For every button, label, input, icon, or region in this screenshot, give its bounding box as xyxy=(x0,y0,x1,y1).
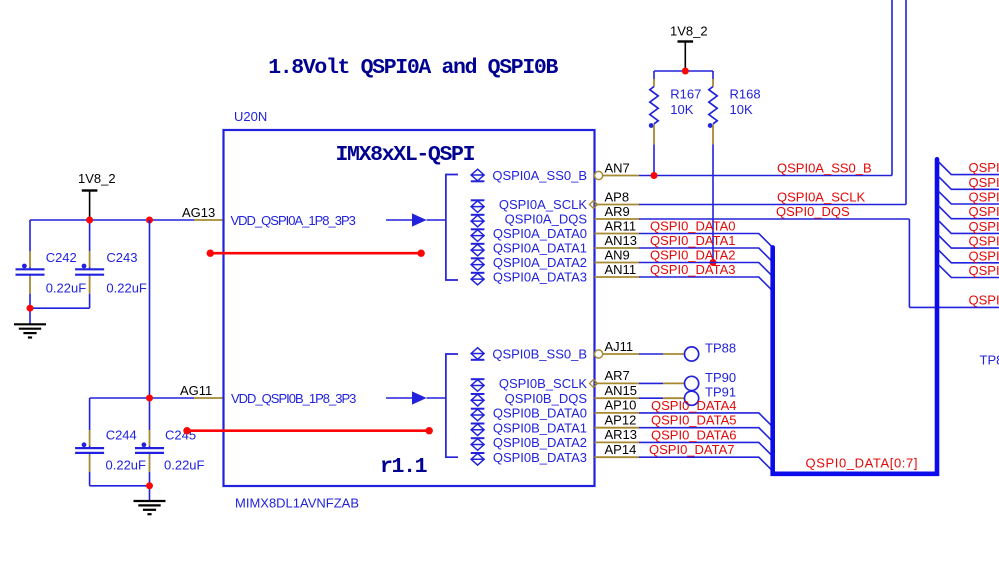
svg-text:QSPI0A_DATA2: QSPI0A_DATA2 xyxy=(493,255,587,270)
wire QSPI0A_SS0_B net xyxy=(639,0,892,176)
svg-text:QSPI0_DATA6: QSPI0_DATA6 xyxy=(651,427,737,442)
wire bus branch QSPI0_DATA0 xyxy=(938,162,999,175)
wire bus branch QSPI0_DATA1 xyxy=(938,176,999,189)
svg-text:QSPI0_DATA4: QSPI0_DATA4 xyxy=(651,398,737,413)
wire bus branch QSPI0_DATA3 xyxy=(938,206,999,219)
pin group bracket A xyxy=(446,175,458,281)
svg-text:QSPI0A_SS0_B: QSPI0A_SS0_B xyxy=(492,168,587,183)
svg-text:QSPI0_DATA1: QSPI0_DATA1 xyxy=(969,175,999,190)
testpoint TP91 xyxy=(639,397,663,399)
wire QSPI0_DATA1 net xyxy=(639,248,773,262)
pin symbol QSPI0B_SCLK xyxy=(471,380,484,392)
node junction ground 2 xyxy=(146,482,153,489)
svg-text:QSPI0B_DATA3: QSPI0B_DATA3 xyxy=(493,450,587,465)
svg-text:VDD_QSPI0B_1P8_3P3: VDD_QSPI0B_1P8_3P3 xyxy=(231,391,356,406)
svg-text:IMX8xXL-QSPI: IMX8xXL-QSPI xyxy=(336,143,475,167)
node junction ground 1 xyxy=(27,305,34,312)
svg-text:C243: C243 xyxy=(106,250,137,265)
resistor R168 xyxy=(712,71,714,79)
svg-text:QSPI0_DATA3: QSPI0_DATA3 xyxy=(969,204,999,219)
ground (left lower) xyxy=(149,486,151,501)
svg-text:1.8Volt QSPI0A and QSPI0B: 1.8Volt QSPI0A and QSPI0B xyxy=(268,56,558,80)
wire QSPI0_DATA3 net xyxy=(639,277,773,291)
pin stub AG13 xyxy=(194,219,224,221)
svg-text:TP89: TP89 xyxy=(980,353,999,368)
svg-text:C242: C242 xyxy=(46,250,77,265)
node junction R167/SS0_B xyxy=(651,172,658,179)
svg-text:AP14: AP14 xyxy=(605,442,637,457)
svg-text:QSPI0B_DATA0: QSPI0B_DATA0 xyxy=(493,406,587,421)
wire QSPI0A_SCLK net xyxy=(639,0,906,205)
node junction R168/DATA2 xyxy=(710,259,717,266)
svg-text:C244: C244 xyxy=(106,428,137,443)
pin symbol QSPI0A_DATA3 xyxy=(471,273,484,285)
svg-text:QSPI0B_SS0_B: QSPI0B_SS0_B xyxy=(492,347,587,362)
wire vertical rail to AG11 xyxy=(149,220,151,398)
svg-text:QSPI0A_DATA1: QSPI0A_DATA1 xyxy=(493,241,587,256)
pin symbol QSPI0A_DATA0 xyxy=(471,230,484,242)
svg-text:AR13: AR13 xyxy=(605,427,638,442)
wire probe line A xyxy=(210,252,421,255)
svg-text:QSPI0A_SS0_B: QSPI0A_SS0_B xyxy=(777,161,872,176)
svg-text:QSPI0_DATA0: QSPI0_DATA0 xyxy=(969,160,999,175)
wire AG11 rail xyxy=(90,397,194,399)
ground (left upper) xyxy=(29,308,31,324)
pin AP12 stub xyxy=(595,427,640,429)
wire bus branch QSPI0_DATA4 xyxy=(938,220,999,233)
svg-text:QSPI0_DATA[0:7]: QSPI0_DATA[0:7] xyxy=(806,456,919,471)
svg-text:AN9: AN9 xyxy=(605,247,630,262)
svg-text:QSPI0_DATA4: QSPI0_DATA4 xyxy=(969,219,999,234)
svg-text:0.22uF: 0.22uF xyxy=(164,457,205,472)
capacitor C245 xyxy=(149,398,151,430)
wire cap bottom rail 2 xyxy=(90,485,150,487)
svg-text:QSPI0_DATA5: QSPI0_DATA5 xyxy=(969,234,999,249)
pin symbol QSPI0B_DATA0 xyxy=(471,409,484,421)
svg-text:MIMX8DL1AVNFZAB: MIMX8DL1AVNFZAB xyxy=(235,496,359,511)
svg-text:QSPI0A_SCLK: QSPI0A_SCLK xyxy=(777,190,865,205)
pin AR7 stub xyxy=(595,382,640,384)
svg-text:10K: 10K xyxy=(730,102,753,117)
svg-text:AG11: AG11 xyxy=(180,383,212,398)
svg-text:QSPI0_DATA7: QSPI0_DATA7 xyxy=(969,263,999,278)
pin AN13 stub xyxy=(595,247,640,249)
op IC U20N body xyxy=(224,130,595,486)
pin AN9 stub xyxy=(595,262,640,264)
svg-text:AN13: AN13 xyxy=(605,233,638,248)
pin symbol QSPI0B_DATA2 xyxy=(471,439,484,451)
svg-text:QSPI0_DQS: QSPI0_DQS xyxy=(969,293,999,308)
svg-text:QSPI0_DATA7: QSPI0_DATA7 xyxy=(649,442,735,457)
svg-text:QSPI0_DATA1: QSPI0_DATA1 xyxy=(650,233,736,248)
pin AJ11 stub xyxy=(595,350,603,358)
capacitor C243 xyxy=(89,220,91,251)
svg-text:AN7: AN7 xyxy=(605,160,630,175)
svg-text:QSPI0_DATA3: QSPI0_DATA3 xyxy=(650,262,736,277)
svg-text:AP12: AP12 xyxy=(605,413,637,428)
svg-text:U20N: U20N xyxy=(234,109,267,124)
node junction pullup rail xyxy=(682,68,689,75)
wire top rail AG13 xyxy=(30,219,194,221)
svg-text:QSPI0_DATA5: QSPI0_DATA5 xyxy=(651,413,737,428)
svg-text:QSPI0_DATA6: QSPI0_DATA6 xyxy=(969,248,999,263)
pin stub AG11 xyxy=(194,397,224,399)
svg-text:1V8_2: 1V8_2 xyxy=(78,171,116,186)
svg-text:QSPI0B_DQS: QSPI0B_DQS xyxy=(505,391,588,406)
svg-text:0.22uF: 0.22uF xyxy=(106,457,147,472)
svg-text:QSPI0B_DATA2: QSPI0B_DATA2 xyxy=(493,435,587,450)
wire pullup rail xyxy=(654,70,713,72)
node junction AG11 xyxy=(146,395,153,402)
svg-text:1V8_2: 1V8_2 xyxy=(670,24,708,39)
wire bus branch QSPI0_DATA5 xyxy=(938,235,999,248)
svg-text:VDD_QSPI0A_1P8_3P3: VDD_QSPI0A_1P8_3P3 xyxy=(231,213,356,228)
pin AR13 stub xyxy=(595,441,640,443)
svg-text:r1.1: r1.1 xyxy=(380,455,427,479)
wire probe line B xyxy=(187,429,429,432)
wire bus branch QSPI0_DATA6 xyxy=(938,250,999,263)
wire QSPI0_DATA0 net xyxy=(639,234,773,248)
svg-text:0.22uF: 0.22uF xyxy=(46,280,87,295)
svg-text:TP90: TP90 xyxy=(705,370,736,385)
pin symbol QSPI0A_SCLK xyxy=(471,201,484,213)
pin AP14 stub xyxy=(595,456,640,458)
svg-text:AR9: AR9 xyxy=(605,204,630,219)
svg-text:QSPI0_DATA0: QSPI0_DATA0 xyxy=(650,219,736,234)
svg-text:AR7: AR7 xyxy=(605,368,630,383)
pin symbol QSPI0B_SS0_B xyxy=(471,348,484,360)
capacitor C244 xyxy=(89,398,91,430)
testpoint TP88 xyxy=(639,353,663,355)
svg-text:QSPI0B_DATA1: QSPI0B_DATA1 xyxy=(493,420,587,435)
wire cap bottom rail 1 xyxy=(30,307,90,309)
pin AN11 stub xyxy=(595,276,640,278)
svg-text:0.22uF: 0.22uF xyxy=(106,280,147,295)
svg-text:R167: R167 xyxy=(670,87,701,102)
wire QSPI0_DATA6 net xyxy=(639,442,773,456)
pin symbol QSPI0A_SS0_B xyxy=(471,169,484,181)
testpoint TP90 xyxy=(639,382,663,384)
svg-text:QSPI0_DATA2: QSPI0_DATA2 xyxy=(650,248,736,263)
svg-text:AN11: AN11 xyxy=(605,262,637,277)
pin symbol QSPI0B_DATA3 xyxy=(471,454,484,466)
svg-text:AN15: AN15 xyxy=(605,383,638,398)
svg-text:QSPI0A_DATA0: QSPI0A_DATA0 xyxy=(493,226,587,241)
wire QSPI0_DQS net xyxy=(639,219,999,307)
pin symbol QSPI0B_DQS xyxy=(471,395,484,407)
svg-text:QSPI0A_DATA3: QSPI0A_DATA3 xyxy=(493,270,587,285)
resistor R167 xyxy=(653,71,655,79)
svg-text:AP10: AP10 xyxy=(605,398,637,413)
svg-text:QSPI0_DATA2: QSPI0_DATA2 xyxy=(969,190,999,205)
wire QSPI0_DATA2 net xyxy=(639,263,773,277)
svg-text:AJ11: AJ11 xyxy=(605,339,634,354)
svg-text:AG13: AG13 xyxy=(182,205,215,220)
wire bus branch QSPI0_DATA7 xyxy=(938,264,999,277)
pin symbol QSPI0A_DQS xyxy=(471,215,484,227)
bus QSPI0_DATA[0:7] xyxy=(773,159,937,474)
pin AR11 stub xyxy=(595,233,640,235)
svg-text:AP8: AP8 xyxy=(605,189,630,204)
pin group bracket B xyxy=(446,354,458,457)
pin AP10 stub xyxy=(595,412,640,414)
wire QSPI0_DATA4 net xyxy=(639,413,773,427)
svg-text:R168: R168 xyxy=(730,87,761,102)
pin symbol QSPI0A_DATA2 xyxy=(471,259,484,271)
pin symbol QSPI0B_DATA1 xyxy=(471,424,484,436)
svg-text:AR11: AR11 xyxy=(605,218,637,233)
svg-text:10K: 10K xyxy=(670,102,693,117)
wire QSPI0_DATA7 net xyxy=(639,457,773,471)
wire bus branch QSPI0_DATA2 xyxy=(938,191,999,204)
pin AN15 stub xyxy=(595,397,640,399)
wire QSPI0_DATA5 net xyxy=(639,428,773,442)
svg-text:QSPI0B_SCLK: QSPI0B_SCLK xyxy=(499,376,587,391)
pin AN7 stub xyxy=(595,171,603,179)
capacitor C242 xyxy=(29,220,31,251)
node junction top rail xyxy=(86,217,93,224)
pin symbol QSPI0A_DATA1 xyxy=(471,244,484,256)
svg-text:QSPI0A_DQS: QSPI0A_DQS xyxy=(505,212,588,227)
pin AP8 stub xyxy=(595,204,640,206)
svg-text:QSPI0A_SCLK: QSPI0A_SCLK xyxy=(499,197,587,212)
pin AR9 stub xyxy=(595,218,640,220)
svg-text:TP88: TP88 xyxy=(705,341,736,356)
svg-text:QSPI0_DQS: QSPI0_DQS xyxy=(776,204,850,219)
